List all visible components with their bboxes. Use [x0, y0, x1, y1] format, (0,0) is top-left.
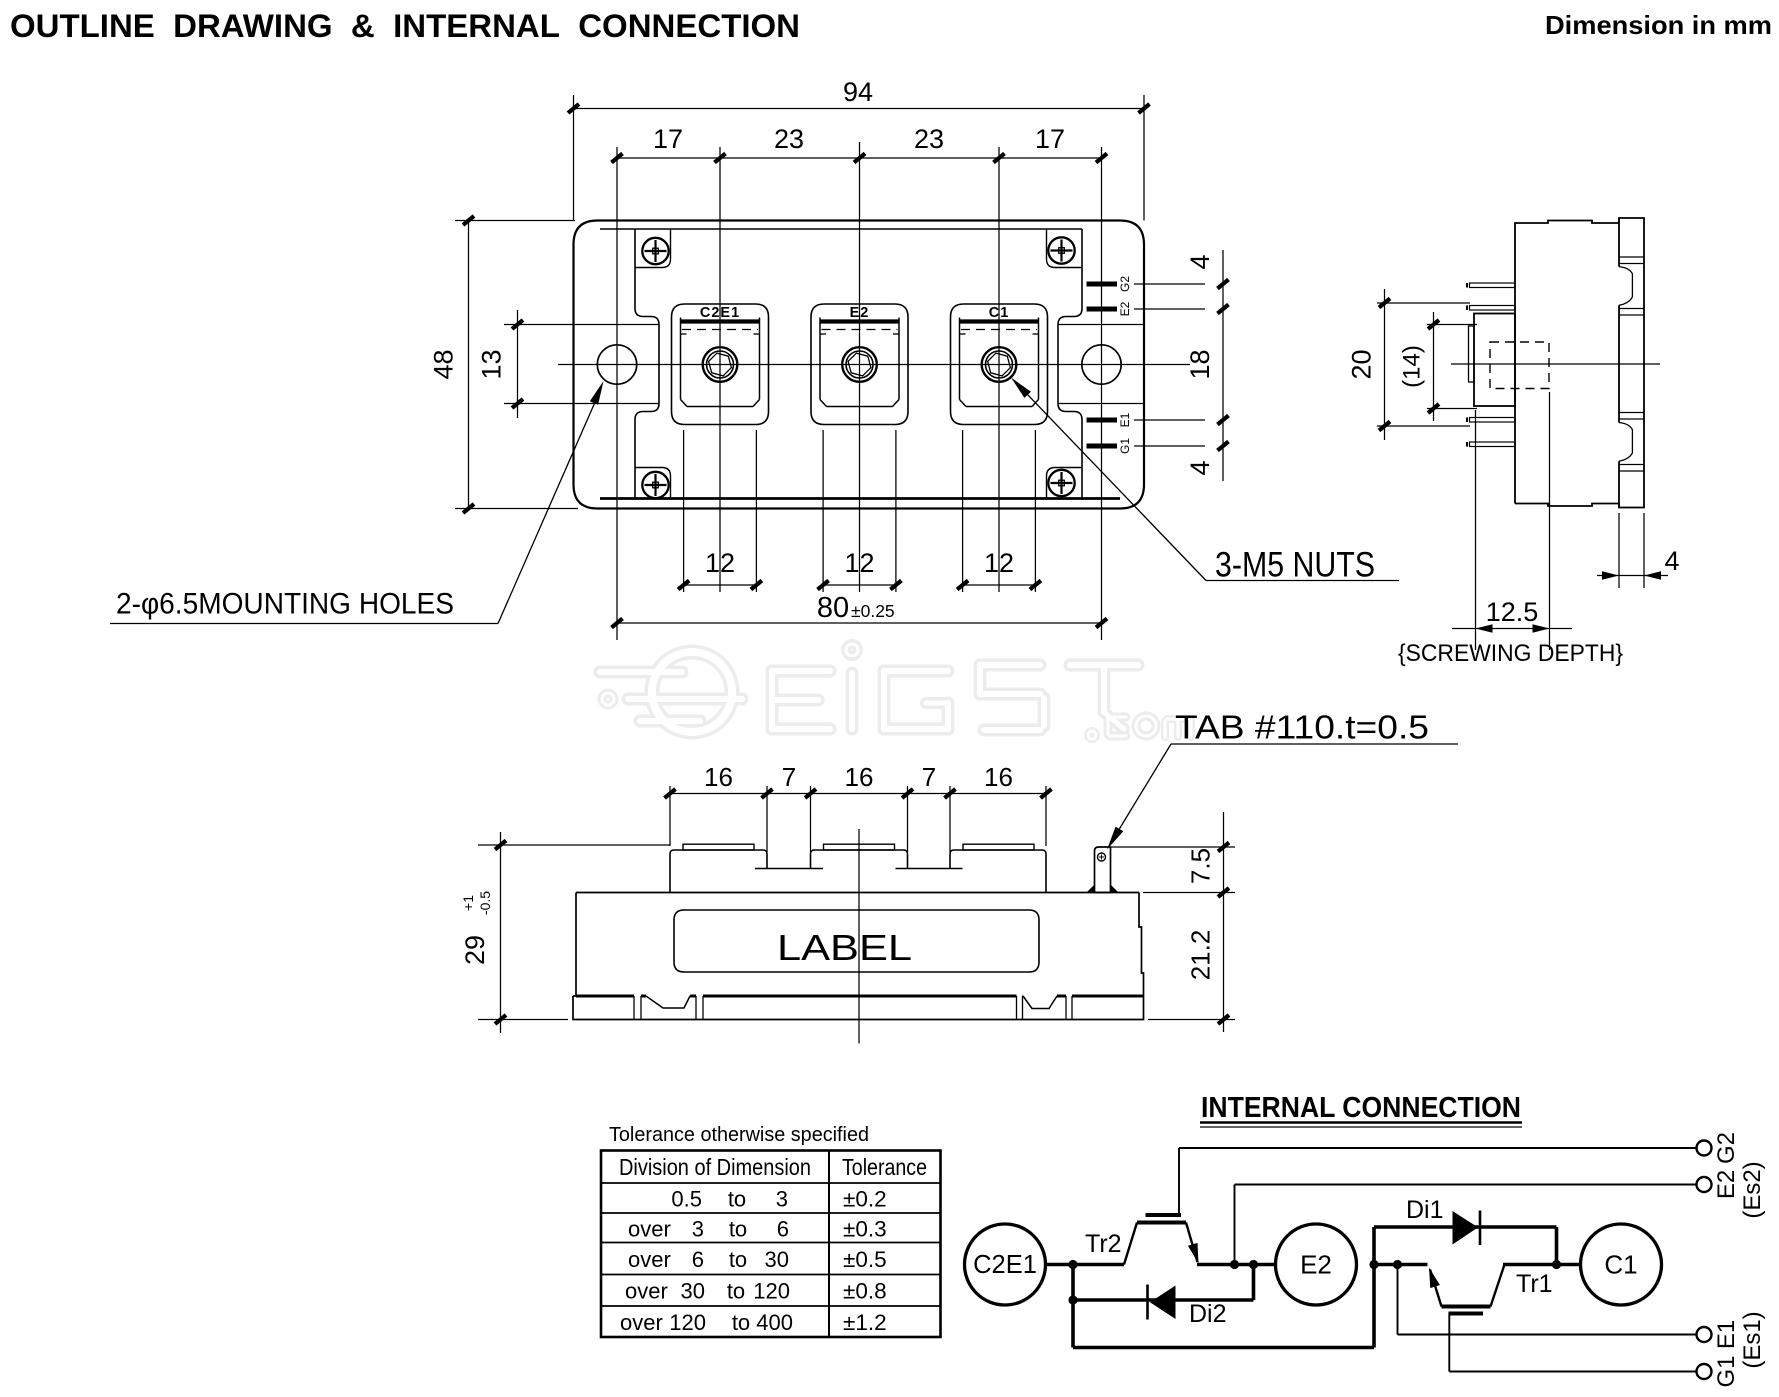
svg-text:13: 13	[477, 349, 507, 379]
side view: case body profile	[1515, 221, 1619, 504]
svg-text:16: 16	[845, 762, 874, 792]
top view: vertical centerline C1	[998, 147, 1000, 592]
svg-text:29: 29	[460, 935, 490, 965]
front view: terminal block 3 outline	[950, 850, 1046, 893]
side view: horizontal centerline	[1451, 363, 1660, 365]
side view: baseplate flange lines bottom	[1619, 412, 1644, 414]
top view: gate/emitter pin G1	[1087, 444, 1118, 449]
side view: baseplate flange lines top	[1619, 256, 1644, 258]
svg-text:E1: E1	[1118, 412, 1132, 427]
terminal C1	[1581, 1224, 1662, 1305]
front view: terminal block 2 outline	[811, 850, 908, 869]
svg-text:12: 12	[984, 548, 1014, 578]
side view: pin E1 profile	[1470, 418, 1516, 423]
svg-text:E1: E1	[1713, 1320, 1740, 1349]
top view: screw terminal C2E1	[672, 304, 769, 425]
dimension 12 under E2	[822, 430, 824, 592]
wire C2E1 to node	[1046, 1263, 1125, 1267]
junction Es2 tap	[1230, 1260, 1239, 1269]
terminal G2	[1697, 1141, 1712, 1156]
dimension (14) terminal block span	[1427, 324, 1477, 326]
side view: baseplate flange cutout top	[1619, 267, 1632, 306]
svg-text:±1.2: ±1.2	[843, 1310, 887, 1335]
svg-text:18: 18	[1185, 349, 1215, 379]
svg-text:23: 23	[774, 124, 804, 154]
front view: fast-on tab #110	[1095, 847, 1111, 893]
top view: left mounting ear step lines	[504, 324, 659, 326]
svg-text:Di2: Di2	[1189, 1300, 1227, 1328]
top view: vertical centerline C2E1	[719, 147, 721, 592]
svg-text:over: over	[628, 1247, 671, 1272]
svg-text:94: 94	[843, 77, 873, 107]
svg-text:E2: E2	[1300, 1250, 1332, 1280]
svg-text:G1: G1	[1713, 1355, 1740, 1387]
svg-text:0.5: 0.5	[671, 1187, 702, 1212]
terminal E2	[1276, 1224, 1357, 1305]
wire C2E1 riser to diode row and bottom rail	[1071, 1265, 1075, 1348]
svg-text:Tr1: Tr1	[1516, 1270, 1553, 1298]
side view: baseplate profile	[1619, 218, 1644, 508]
top view: corner screw top-left	[642, 238, 668, 264]
svg-text:E2: E2	[1713, 1170, 1740, 1199]
wire Di2 row	[1073, 1298, 1254, 1302]
svg-text:±0.25: ±0.25	[851, 601, 895, 621]
top view: right mounting ear step lines	[1058, 324, 1144, 326]
diode Di2	[1146, 1285, 1149, 1320]
front view: case top line	[576, 892, 1139, 894]
svg-text:C1: C1	[1604, 1250, 1637, 1280]
svg-text:12: 12	[705, 548, 735, 578]
svg-text:17: 17	[653, 124, 683, 154]
svg-text:(14): (14)	[1399, 345, 1426, 388]
svg-text:±0.8: ±0.8	[843, 1279, 887, 1304]
top view: gate/emitter pin E1	[1087, 418, 1118, 423]
top view: vertical centerline E2	[859, 142, 861, 592]
svg-text:20: 20	[1347, 349, 1377, 379]
dimension 94 (module width)	[573, 95, 575, 221]
svg-text:4: 4	[1664, 546, 1679, 576]
svg-text:to: to	[729, 1217, 747, 1242]
svg-text:G2: G2	[1713, 1132, 1740, 1164]
svg-text:2-φ6.5MOUNTING HOLES: 2-φ6.5MOUNTING HOLES	[116, 588, 454, 621]
top view: gate/emitter pin G2	[1087, 282, 1118, 287]
svg-text:Tolerance otherwise specified: Tolerance otherwise specified	[609, 1124, 869, 1146]
svg-text:+1: +1	[460, 895, 476, 911]
svg-text:over: over	[625, 1279, 668, 1304]
front view: baseplate outline	[573, 996, 1144, 1020]
top view: corner screw top-right	[1048, 237, 1074, 263]
svg-text:±0.3: ±0.3	[843, 1217, 887, 1242]
top view: horizontal centerline	[558, 364, 1190, 366]
svg-text:Tolerance: Tolerance	[842, 1154, 927, 1180]
svg-text:Dimension in mm: Dimension in mm	[1545, 10, 1772, 40]
svg-text:120: 120	[753, 1279, 790, 1304]
wire bottom rail C2E1 to Tr1 emitter	[1073, 1346, 1374, 1350]
junction Es1 tap	[1393, 1260, 1402, 1269]
svg-text:over: over	[620, 1310, 663, 1335]
dimension 21.2 (case height)	[1148, 1019, 1235, 1021]
svg-text:3: 3	[692, 1217, 704, 1242]
junction C2E1 node	[1068, 1260, 1077, 1269]
wire Tr1 emitter node row	[1374, 1263, 1428, 1267]
top view: vertical centerline right hole	[1101, 147, 1103, 640]
svg-text:12.5: 12.5	[1486, 597, 1539, 627]
svg-text:48: 48	[429, 349, 459, 379]
svg-text:4: 4	[1185, 254, 1215, 269]
dimension 12 under C1	[962, 430, 964, 592]
svg-text:OUTLINE DRAWING & INTERNAL: OUTLINE DRAWING & INTERNAL CONNECTION	[10, 8, 800, 44]
svg-text:80: 80	[817, 592, 849, 624]
dimension 4 (baseplate thickness)	[1618, 513, 1620, 588]
svg-text:400: 400	[756, 1310, 793, 1335]
dimension 80 +/-0.25 (hole pitch)	[617, 622, 1102, 624]
side view: pin G1 profile	[1470, 442, 1516, 447]
wire riser bottom rail to Di1 anode	[1372, 1227, 1376, 1348]
top view: case outline left side with mounting-ear notch	[635, 229, 659, 499]
svg-text:17: 17	[1035, 124, 1065, 154]
transistor Tr2 (IGBT)	[1146, 1213, 1182, 1217]
dimension 12 under C2E1	[683, 430, 685, 592]
top view: corner screw bottom-right	[1048, 470, 1074, 496]
svg-text:7.5: 7.5	[1186, 848, 1216, 884]
svg-text:G2: G2	[1118, 276, 1132, 292]
svg-text:(Es2): (Es2)	[1739, 1161, 1766, 1218]
dimension 4 (G2 pin offset)	[1134, 283, 1205, 285]
top view: case bottom chamfer line	[600, 497, 1120, 500]
svg-text:±0.2: ±0.2	[843, 1187, 887, 1212]
top view: case outline right side with mounting-ear notch	[1058, 229, 1082, 499]
svg-text:Tr2: Tr2	[1085, 1230, 1122, 1258]
svg-text:over: over	[628, 1217, 671, 1242]
svg-text:4: 4	[1185, 460, 1215, 475]
dimension chain 17 23 23 17 (terminal pitch)	[617, 157, 1102, 159]
svg-text:16: 16	[704, 762, 733, 792]
svg-text:±0.5: ±0.5	[843, 1247, 887, 1272]
svg-text:6: 6	[692, 1247, 704, 1272]
svg-text:INTERNAL CONNECTION: INTERNAL CONNECTION	[1201, 1092, 1521, 1124]
top view: right mounting hole (dia 6.5)	[1082, 345, 1121, 384]
svg-text:to: to	[727, 1279, 745, 1304]
front view: case body outline	[575, 893, 577, 997]
front view: terminal block 1 outline	[670, 850, 767, 893]
wire Es1 sense to E1(Es1) terminal	[1397, 1265, 1399, 1335]
dimension 12.5 screwing depth	[1475, 410, 1477, 650]
svg-text:to: to	[728, 1187, 746, 1212]
svg-text:3: 3	[776, 1187, 788, 1212]
svg-text:7: 7	[922, 762, 936, 792]
tolerance table grid	[601, 1151, 941, 1338]
top view: screw terminal E2	[811, 304, 908, 425]
transistor Tr1 (IGBT)	[1442, 1305, 1491, 1309]
junction Di1 cathode node	[1552, 1260, 1561, 1269]
watermark eIGBT logo	[600, 644, 1191, 739]
svg-text:Di1: Di1	[1406, 1196, 1444, 1224]
svg-text:to: to	[732, 1310, 750, 1335]
svg-text:C2E1: C2E1	[973, 1251, 1037, 1279]
junction Tr1 emitter node	[1369, 1260, 1378, 1269]
wire Di1 cathode riser	[1555, 1227, 1559, 1265]
svg-text:G1: G1	[1118, 438, 1132, 454]
top view: screw terminal C1	[951, 304, 1048, 425]
wire Di2 anode riser	[1252, 1265, 1256, 1301]
dimension 29 +1/-0.5 (height)	[478, 844, 670, 846]
wire Di1 row	[1374, 1225, 1557, 1229]
front view: case-baseplate boundary with flange cutouts	[576, 995, 634, 998]
front view: vertical centerline	[858, 829, 860, 1044]
svg-text:3-M5 NUTS: 3-M5 NUTS	[1215, 546, 1375, 585]
svg-text:12: 12	[844, 548, 874, 578]
top view: gate/emitter pin E2	[1087, 307, 1118, 312]
terminal E1 (Es1)	[1697, 1327, 1712, 1342]
svg-text:23: 23	[914, 124, 944, 154]
top view: corner screw bottom-left	[642, 472, 668, 498]
side view: baseplate flange cutout bottom	[1619, 423, 1632, 462]
svg-text:LABEL: LABEL	[777, 927, 912, 968]
side view: pin E2 profile	[1470, 306, 1516, 311]
svg-text:6: 6	[777, 1217, 789, 1242]
top view: case top chamfer line	[600, 228, 1082, 230]
svg-text:E2: E2	[1118, 301, 1132, 316]
junction Di2 cathode node	[1068, 1295, 1077, 1304]
wire Tr1 gate to G1	[1448, 1314, 1450, 1372]
svg-text:120: 120	[669, 1310, 706, 1335]
top view: vertical centerline left hole	[616, 147, 618, 640]
svg-text:to: to	[729, 1247, 747, 1272]
svg-text:30: 30	[681, 1279, 705, 1304]
dimension 20 (pin group span)	[1377, 302, 1470, 304]
dimension 7.5 (tab height)	[1111, 846, 1236, 848]
svg-text:{SCREWING DEPTH}: {SCREWING DEPTH}	[1398, 640, 1623, 667]
side view: screw hole hidden outline (dashed)	[1490, 342, 1549, 389]
wire Tr1 collector to C1	[1503, 1263, 1581, 1267]
terminal C2E1	[965, 1224, 1046, 1305]
front view: label recess	[674, 910, 1039, 972]
wire Tr2 gate to G2	[1178, 1148, 1180, 1215]
front view: platform between terminals	[755, 868, 823, 870]
svg-text:-0.5: -0.5	[477, 891, 493, 915]
svg-text:(Es1): (Es1)	[1739, 1311, 1766, 1368]
junction Di2 anode tap	[1249, 1260, 1258, 1269]
diode Di1	[1453, 1211, 1479, 1245]
front view: dimension chain 16 7 16 7 16 (terminal widths)	[669, 786, 671, 846]
dimension 48 (module depth)	[455, 220, 575, 222]
terminal E2 (Es2)	[1697, 1177, 1712, 1192]
top view: module outer outline 94x48	[574, 221, 1145, 509]
dimension 13 (ear width)	[517, 310, 519, 418]
svg-text:7: 7	[782, 762, 796, 792]
svg-text:Division of Dimension: Division of Dimension	[619, 1154, 811, 1180]
svg-text:30: 30	[765, 1247, 789, 1272]
side view: screw terminal block profile	[1474, 314, 1515, 407]
wire Tr2 emitter to E2	[1197, 1263, 1276, 1267]
side view: pin G2 profile	[1470, 283, 1516, 288]
svg-text:21.2: 21.2	[1186, 930, 1216, 981]
wire Es2 sense to E2(Es2) terminal	[1234, 1185, 1236, 1265]
svg-text:TAB #110.t=0.5: TAB #110.t=0.5	[1175, 709, 1429, 746]
terminal G1	[1697, 1364, 1712, 1379]
top view: left mounting hole (dia 6.5)	[597, 345, 636, 384]
svg-text:16: 16	[984, 762, 1013, 792]
